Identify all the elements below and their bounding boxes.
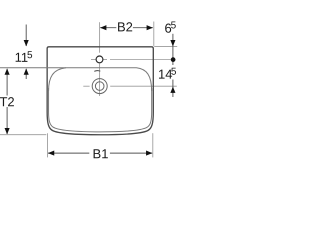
svg-text:5: 5 (171, 67, 177, 78)
svg-text:5: 5 (171, 20, 177, 31)
svg-text:B2: B2 (117, 19, 133, 34)
svg-text:T2: T2 (0, 94, 15, 109)
svg-text:5: 5 (27, 50, 33, 61)
svg-text:B1: B1 (93, 146, 109, 161)
